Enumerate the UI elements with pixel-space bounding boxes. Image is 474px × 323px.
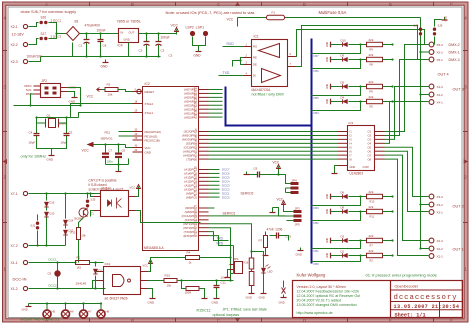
svg-text:OUT 1: OUT 1: [453, 248, 464, 252]
svg-text:C1: C1: [79, 44, 83, 48]
svg-text:OUT 2: OUT 2: [453, 205, 464, 209]
svg-text:COM: COM: [363, 165, 369, 169]
svg-text:100nF: 100nF: [97, 29, 106, 33]
svg-text:F1: F1: [272, 11, 276, 15]
svg-text:IC2: IC2: [145, 82, 150, 86]
svg-text:MAX487CSA: MAX487CSA: [252, 88, 272, 92]
svg-text:optional lowpass: optional lowpass: [213, 313, 240, 317]
svg-text:Kufer Wolfgang: Kufer Wolfgang: [297, 273, 326, 278]
svg-text:O2: O2: [368, 134, 372, 138]
svg-text:R2: R2: [370, 259, 374, 263]
svg-text:PE2(OC1B): PE2(OC1B): [145, 138, 160, 142]
svg-text:JP1: JP1: [234, 257, 240, 261]
svg-text:GND: GND: [327, 42, 329, 47]
svg-text:E: E: [389, 318, 392, 323]
svg-text:MEGA8515-A: MEGA8515-A: [144, 246, 165, 250]
svg-text:O4: O4: [368, 142, 372, 146]
svg-text:DMX-3: DMX-3: [449, 58, 460, 62]
svg-text:(A8)PC0: (A8)PC0: [186, 195, 197, 199]
svg-text:dccaccessory: dccaccessory: [394, 294, 458, 302]
svg-text:R4: R4: [187, 251, 191, 255]
svg-text:R?: R?: [259, 239, 263, 243]
svg-text:GND: GND: [327, 57, 329, 62]
svg-text:150R: 150R: [185, 291, 192, 295]
svg-text:RXD: RXD: [227, 42, 235, 46]
svg-text:X2-3: X2-3: [11, 60, 18, 64]
svg-text:O7: O7: [368, 153, 372, 157]
svg-text:VCC: VCC: [171, 24, 179, 28]
svg-text:VCC: VCC: [273, 161, 280, 165]
svg-text:VCC: VCC: [82, 149, 90, 153]
svg-text:R13: R13: [71, 231, 76, 235]
svg-text:LED: LED: [268, 270, 273, 274]
svg-text:12.04.2007 Feedbackresistor 10: 12.04.2007 Feedbackresistor 10k->22k: [297, 289, 360, 293]
svg-text:(RXD)PD0: (RXD)PD0: [183, 234, 197, 238]
svg-text:DCC-IN: DCC-IN: [13, 277, 27, 282]
svg-text:GND: GND: [327, 253, 329, 258]
svg-text:OUT: OUT: [129, 31, 135, 35]
svg-text:B: B: [131, 318, 134, 323]
svg-text:H8: H8: [106, 310, 110, 314]
svg-text:PE1: PE1: [105, 131, 111, 135]
svg-text:D13: D13: [50, 212, 55, 216]
svg-text:MOUNT PAD ROUND 3.2: MOUNT PAD ROUND 3.2: [21, 318, 60, 322]
svg-text:DI: DI: [253, 74, 256, 78]
svg-text:GND: GND: [296, 253, 302, 257]
svg-text:ULN2803: ULN2803: [350, 172, 364, 176]
svg-text:X2-3: X2-3: [437, 239, 444, 243]
svg-text:http://www.opendcc.de: http://www.opendcc.de: [297, 311, 333, 315]
svg-text:GND: GND: [69, 100, 77, 104]
svg-text:FB4: FB4: [314, 111, 320, 115]
svg-text:DMX-1: DMX-1: [449, 50, 460, 54]
svg-text:OUT 4: OUT 4: [438, 73, 449, 77]
svg-text:18pF: 18pF: [29, 141, 36, 145]
svg-text:C7: C7: [109, 149, 113, 153]
svg-text:X4-1: X4-1: [437, 100, 444, 104]
svg-text:VCC: VCC: [227, 18, 234, 22]
svg-text:close SJ6,7 for common supply: close SJ6,7 for common supply: [21, 9, 77, 14]
svg-text:DMX-2: DMX-2: [449, 43, 460, 47]
svg-text:C3: C3: [161, 49, 165, 53]
svg-text:R5: R5: [370, 105, 374, 109]
svg-text:alt. 6N137 #N26: alt. 6N137 #N26: [105, 297, 128, 301]
svg-text:12-18V: 12-18V: [12, 33, 25, 37]
svg-text:47nF, 1206: 47nF, 1206: [267, 228, 283, 232]
svg-text:GND: GND: [212, 301, 220, 305]
svg-text:D15: D15: [50, 201, 55, 205]
svg-text:D3: D3: [341, 234, 345, 238]
svg-text:13.05.2007 21:30:54: 13.05.2007 21:30:54: [394, 304, 460, 310]
svg-text:IC3: IC3: [349, 121, 354, 125]
svg-text:X3-3: X3-3: [437, 195, 444, 199]
svg-text:VCC: VCC: [145, 146, 151, 150]
svg-text:SJ6: SJ6: [41, 16, 47, 20]
svg-text:C2: C2: [139, 49, 143, 53]
svg-text:SJ8: SJ8: [414, 24, 419, 28]
svg-text:GND: GND: [327, 194, 329, 199]
svg-text:DE: DE: [253, 63, 257, 67]
svg-text:E: E: [389, 2, 392, 7]
svg-text:GND: GND: [124, 38, 130, 42]
svg-text:B: B: [131, 2, 134, 7]
svg-text:OUT 3: OUT 3: [453, 88, 464, 92]
svg-text:X5-1: X5-1: [437, 58, 444, 62]
svg-text:FB2: FB2: [314, 221, 320, 225]
svg-text:SERVO1: SERVO1: [223, 212, 236, 216]
svg-text:C11: C11: [221, 281, 227, 285]
svg-text:SJ5: SJ5: [91, 198, 96, 202]
svg-text:22k: 22k: [369, 234, 374, 238]
svg-text:XTAL1: XTAL1: [145, 111, 154, 115]
svg-text:470uF/40V: 470uF/40V: [85, 24, 101, 28]
svg-text:X1-1: X1-1: [11, 261, 18, 265]
svg-text:XTAL2: XTAL2: [145, 102, 154, 106]
svg-text:X1-2: X1-2: [11, 287, 18, 291]
svg-text:X2-2: X2-2: [11, 43, 18, 47]
svg-text:D9: D9: [341, 53, 345, 57]
svg-text:C4: C4: [29, 131, 33, 135]
svg-text:GND: GND: [350, 165, 356, 169]
svg-text:IN: IN: [121, 31, 124, 35]
svg-text:22k: 22k: [369, 38, 374, 42]
svg-text:22k: 22k: [369, 205, 374, 209]
svg-text:SJ9: SJ9: [438, 24, 443, 28]
svg-text:VCC: VCC: [87, 95, 94, 99]
svg-text:D10: D10: [341, 38, 347, 42]
svg-text:10k: 10k: [108, 93, 113, 97]
svg-text:JP2: JP2: [42, 79, 48, 83]
svg-text:C9: C9: [48, 272, 52, 276]
svg-text:O8: O8: [368, 157, 372, 161]
svg-text:22k: 22k: [369, 249, 374, 253]
svg-text:X3-2: X3-2: [437, 203, 444, 207]
svg-text:LSP2 LSP1: LSP2 LSP1: [186, 26, 205, 30]
svg-text:GND: GND: [327, 209, 329, 214]
svg-text:R7: R7: [370, 244, 374, 248]
svg-text:R6: R6: [370, 90, 374, 94]
svg-text:R9: R9: [370, 48, 374, 52]
svg-text:X5-3: X5-3: [437, 43, 444, 47]
svg-text:Sheet: 1/1: Sheet: 1/1: [395, 312, 426, 318]
svg-text:RXD: RXD: [217, 242, 224, 246]
svg-text:C6: C6: [254, 167, 258, 171]
svg-text:R3: R3: [107, 83, 111, 87]
svg-text:22k: 22k: [369, 190, 374, 194]
svg-text:T1: T1: [91, 212, 95, 216]
svg-text:JP1: if fitted: save last Stat: JP1: if fitted: save last State: [223, 308, 267, 312]
svg-text:7805 or 7805L: 7805 or 7805L: [117, 20, 142, 24]
svg-text:R15/C11:: R15/C11:: [197, 309, 212, 313]
svg-text:VCC: VCC: [277, 198, 284, 202]
svg-text:10k: 10k: [82, 234, 87, 238]
svg-text:X5-2: X5-2: [437, 50, 444, 54]
svg-text:R1: R1: [77, 256, 81, 260]
svg-text:Q1: Q1: [47, 114, 51, 118]
svg-text:F: F: [450, 318, 453, 323]
svg-text:X4-2: X4-2: [437, 93, 444, 97]
svg-text:RE: RE: [253, 56, 257, 60]
svg-text:FB5: FB5: [314, 96, 320, 100]
svg-text:PC817: PC817: [102, 186, 112, 190]
svg-text:OpenDecoder: OpenDecoder: [395, 285, 419, 289]
svg-text:O5: O5: [368, 145, 372, 149]
svg-text:GND: GND: [327, 99, 329, 104]
svg-text:SJ1: SJ1: [31, 224, 36, 228]
svg-text:12.04.2007 optional RC at Rece: 12.04.2007 optional RC at Receiver Out: [297, 294, 361, 298]
svg-text:D2: D2: [341, 249, 345, 253]
svg-text:C5: C5: [69, 131, 73, 135]
svg-text:DCC0: DCC0: [222, 195, 230, 199]
svg-text:SERVO1: SERVO1: [101, 137, 113, 141]
svg-text:20.04.2007 V2.01 T1 added: 20.04.2007 V2.01 T1 added: [297, 298, 342, 302]
svg-text:2 DCC1: 2 DCC1: [51, 19, 62, 23]
svg-text:C3: C3: [169, 54, 173, 58]
svg-text:22k: 22k: [369, 95, 374, 99]
svg-text:22k: 22k: [369, 53, 374, 57]
svg-text:B1: B1: [75, 20, 79, 24]
svg-text:C8: C8: [122, 149, 126, 153]
svg-text:R11: R11: [370, 215, 375, 219]
svg-text:D14: D14: [69, 219, 74, 223]
svg-text:JP3: JP3: [295, 207, 301, 211]
svg-text:X2-2: X2-2: [437, 247, 444, 251]
svg-text:O3: O3: [368, 138, 372, 142]
svg-text:GND: GND: [259, 296, 265, 300]
svg-text:1k5: 1k5: [77, 266, 82, 270]
svg-text:GND: GND: [444, 16, 448, 22]
svg-text:FB1: FB1: [314, 249, 320, 253]
svg-text:X7-1: X7-1: [11, 192, 18, 196]
svg-text:100uF: 100uF: [161, 36, 170, 40]
svg-text:O6: O6: [368, 149, 372, 153]
svg-text:H5: H5: [52, 310, 56, 314]
svg-text:VCC: VCC: [143, 264, 149, 268]
svg-text:GND: GND: [101, 65, 109, 69]
svg-text:CK2: CK2: [105, 262, 111, 266]
svg-text:SJ7: SJ7: [41, 32, 47, 36]
svg-text:CNY17F is possible: CNY17F is possible: [89, 179, 117, 183]
svg-text:13.05.2007 changed DMX connect: 13.05.2007 changed DMX connection: [297, 303, 357, 307]
svg-text:D8: D8: [341, 205, 345, 209]
svg-text:X3-1: X3-1: [437, 210, 444, 214]
svg-text:only for 10MHz: only for 10MHz: [21, 155, 47, 159]
svg-text:IC4: IC4: [118, 44, 123, 48]
svg-text:H6: H6: [70, 310, 74, 314]
svg-text:22k: 22k: [369, 80, 374, 84]
svg-text:C8: C8: [103, 44, 107, 48]
svg-text:VCC: VCC: [130, 186, 136, 190]
svg-text:GND: GND: [246, 296, 252, 300]
svg-text:100uF/10V: 100uF/10V: [27, 55, 43, 59]
svg-text:GND: GND: [47, 158, 55, 162]
svg-text:Version 2.0, Layout 50 * 80mm: Version 2.0, Layout 50 * 80mm: [297, 285, 346, 289]
svg-text:FB0: FB0: [314, 262, 320, 266]
svg-text:JP4: JP4: [292, 179, 298, 183]
svg-text:1N4148: 1N4148: [76, 282, 87, 286]
svg-text:R15: R15: [165, 274, 171, 278]
svg-text:FB6: FB6: [314, 69, 320, 73]
svg-text:01: If pressed: enter programm: 01: If pressed: enter programming mode: [366, 273, 438, 278]
svg-text:A: A: [45, 2, 48, 7]
svg-text:DCC2: DCC2: [49, 284, 57, 288]
svg-text:GND: GND: [194, 54, 202, 58]
svg-text:FB7: FB7: [314, 54, 320, 58]
svg-text:TXD: TXD: [223, 71, 230, 75]
svg-text:X4-3: X4-3: [437, 85, 444, 89]
svg-text:TXD: TXD: [217, 236, 224, 240]
svg-text:X2-1: X2-1: [11, 25, 18, 29]
svg-text:D6: D6: [341, 190, 345, 194]
svg-text:GND: GND: [148, 301, 156, 305]
svg-text:H7: H7: [88, 310, 92, 314]
svg-text:10k: 10k: [167, 284, 172, 288]
svg-text:(AD0)PA0: (AD0)PA0: [184, 115, 197, 119]
svg-text:PE0(OPInt0): PE0(OPInt0): [145, 130, 161, 134]
svg-text:D5: D5: [341, 80, 345, 84]
svg-text:FB3: FB3: [314, 206, 320, 210]
svg-text:R16: R16: [244, 261, 249, 265]
svg-text:D4: D4: [341, 95, 345, 99]
svg-text:IC1: IC1: [254, 35, 259, 39]
svg-text:DCC1: DCC1: [49, 258, 57, 262]
svg-text:X2-1: X2-1: [437, 254, 444, 258]
svg-text:MultiFuse 0,5A: MultiFuse 0,5A: [319, 10, 347, 15]
svg-text:GND: GND: [327, 238, 329, 243]
svg-text:GND: GND: [145, 150, 151, 154]
svg-text:JP5: JP5: [295, 223, 301, 227]
svg-text:SERVO2: SERVO2: [241, 192, 254, 196]
svg-text:not fitted / only DMX: not fitted / only DMX: [252, 93, 285, 97]
svg-text:100n: 100n: [107, 160, 114, 164]
svg-text:R8: R8: [370, 63, 374, 67]
svg-text:RESET: RESET: [145, 90, 155, 94]
svg-text:(T0)PB0: (T0)PB0: [186, 157, 197, 161]
svg-text:GND: GND: [279, 301, 285, 305]
svg-text:O1: O1: [368, 130, 372, 134]
svg-text:R10: R10: [370, 200, 375, 204]
svg-text:X7-2: X7-2: [11, 244, 18, 248]
svg-text:F: F: [450, 2, 453, 7]
svg-text:GND: GND: [327, 84, 329, 89]
svg-text:Note: unused IOs (PC5..7, PE1): Note: unused IOs (PC5..7, PE1) are route…: [166, 10, 255, 15]
svg-text:GND: GND: [22, 308, 28, 312]
